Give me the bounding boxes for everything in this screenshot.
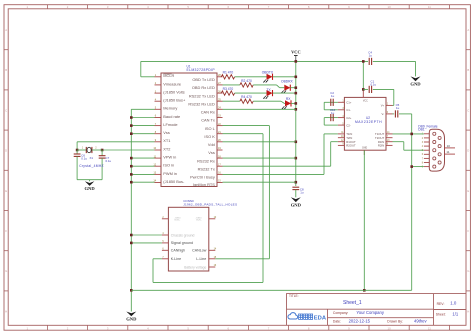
U1 pin 16 (PwrCtrl / Busy) [217,173,223,175]
resistor R3 [221,91,234,95]
svg-text:CANhigh: CANhigh [171,249,185,253]
wire CAN Rx to rail [223,108,296,110]
junction on VCC rail [295,181,298,184]
node crystal left [76,149,79,152]
svg-text:F: F [5,229,7,233]
wire U1 PWM in to left bus [131,173,154,175]
wire crystal ground rail [77,179,102,181]
wire R1IN to DB1 pin 5 [393,141,404,143]
node crystal right [101,149,104,152]
junction C1 node [362,88,365,91]
junction VCC tee [295,60,298,63]
svg-text:L-Line: L-Line [196,257,206,261]
wire C4 to GND corner [373,60,416,62]
LED RX D4 [285,100,291,106]
svg-text:11: 11 [446,150,449,154]
DB1 pin 8 [424,162,429,164]
U1 pin 11 (VPW in) [155,157,162,159]
junction on VCC rail [295,92,298,95]
svg-text:K-Line: K-Line [171,257,181,261]
svg-text:RS232 Rx LED: RS232 Rx LED [188,101,215,106]
CONN0 pin 16 (Battery voltage) [209,266,216,268]
svg-text:Battery voltage: Battery voltage [184,265,206,269]
CONN0 pin 10 (J1850 Bus-) [209,218,216,220]
svg-text:B: B [5,68,7,72]
svg-text:R1 470: R1 470 [223,71,234,75]
junction left bus [130,165,133,168]
svg-text:(J1850 Bus-: (J1850 Bus- [163,179,185,184]
DB1 hole left column [433,132,436,135]
CONN0 pin 14 (CANLow) [209,249,216,251]
svg-text:0.1u: 0.1u [371,82,377,86]
resistor R1 [221,75,234,79]
DB1 hole left column [433,149,436,152]
svg-text:R2OUT: R2OUT [346,144,356,148]
wire J1850 Bus- to left bus [131,181,154,183]
wire RS232 Tx to MAX232 R1OUT [223,165,331,167]
wire to crystal ground [89,180,91,182]
junction on VCC rail [295,157,298,160]
wire left ground bus vertical [130,109,132,311]
svg-text:XT2: XT2 [163,146,170,151]
CONN0 pin 2 (J1850 Bus+) [162,218,169,220]
CONN0 pin 6 (CANhigh) [162,249,169,251]
wire ISO K to K-Line [223,133,264,135]
DB1 pin 11 shield [445,153,456,155]
svg-text:OBDTX: OBDTX [262,70,274,74]
U1 pin 10 (XT2) [155,149,162,151]
svg-text:Vdd: Vdd [208,142,215,147]
svg-text:V+: V+ [381,104,385,108]
svg-text:V-: V- [382,112,385,116]
wire IgnMon RTS to rail [223,181,296,183]
svg-text:0.1u: 0.1u [106,159,112,163]
U2 pin 8 (R2IN) [386,144,393,146]
svg-text:C2+: C2+ [346,116,352,120]
svg-text:TITLE:: TITLE: [289,294,299,298]
EasyEDA logo [288,313,298,319]
svg-text:10: 10 [447,144,451,148]
U2 pin 16 (VCC) [362,91,364,97]
svg-text:C: C [5,108,7,112]
svg-text:MAX232EPTH: MAX232EPTH [355,120,382,124]
wire U2 GND down [363,150,365,290]
U1 pin 26 (RS232 Tx LED) [217,92,223,94]
svg-text:1u: 1u [396,106,400,110]
junction left bus [130,173,133,176]
svg-text:0.1u: 0.1u [81,156,87,160]
svg-text:(J1850 Volts: (J1850 Volts [163,90,184,95]
junction left bus [130,116,133,119]
svg-text:11: 11 [428,5,431,9]
svg-text:ISO L: ISO L [205,126,216,131]
DB1 pin 3 [424,141,429,143]
wire VCC rail vertical [295,61,297,186]
DB1 hole right column [438,136,441,139]
wire Memory to left bus [131,108,154,110]
wire U1 LFmode to left bus [131,125,154,127]
DB1 pin 6 [424,153,429,155]
U1 pin 13 (PWM in) [155,173,162,175]
svg-text:A: A [467,28,469,32]
DB1 pin 5 [424,149,429,151]
DB1 pin 2 [424,137,429,139]
wire C8 to ground [295,190,297,198]
U2 pin 14 (T1OUT) [386,133,393,135]
svg-text:Sheet_1: Sheet_1 [343,300,362,306]
svg-text:X1: X1 [90,156,94,160]
U1 pin 8 (Vss) [155,133,162,135]
wire R4 to D4 [253,100,281,102]
svg-text:VCC: VCC [291,49,301,54]
ground crystal [85,181,95,186]
svg-text:49thev: 49thev [414,318,427,323]
wire RS232 Rx to rail [223,157,296,159]
capacitor C1 [368,86,370,93]
svg-text:LFmode: LFmode [163,122,177,127]
wire Vdd to rail [223,141,296,143]
svg-text:1u: 1u [331,94,335,98]
junction left bus [130,132,133,135]
svg-text:DB1: DB1 [418,128,425,132]
CONN0 pin 4 (Chassis ground) [162,234,169,236]
U1 pin 28 (OBD Tx LED) [217,76,223,78]
U2 pin 1 (C1+) [338,101,345,103]
svg-text:C: C [467,108,469,112]
title block [287,294,467,326]
wire U1 VPW in to left bus [131,157,154,159]
svg-text:REV:: REV: [437,302,445,306]
wire pin27 to R2 [223,84,240,86]
U2 pin 2 (V+) [386,104,393,106]
svg-text:Signal ground: Signal ground [171,241,193,245]
svg-text:G: G [467,269,469,273]
wire C1 to V+ [373,88,394,90]
svg-text:R3 470: R3 470 [223,87,234,91]
U1 pin 17 (RS232 Tx) [217,165,223,167]
wire crystal left [77,149,86,151]
svg-text:RS232 Rx: RS232 Rx [197,158,215,163]
ground top right [411,76,421,81]
U2 pin 4 (C2+) [338,117,345,119]
DB1 pin 10 shield [445,147,456,149]
svg-text:PWM in: PWM in [163,171,177,176]
svg-text:ISO in: ISO in [163,163,174,168]
DB1 hole left column [433,140,436,143]
svg-text:H: H [467,309,469,313]
DB1 pin 4 [424,145,429,147]
capacitor C8 [292,186,299,188]
svg-text:OBDRX: OBDRX [281,79,294,83]
capacitor C4 [368,58,370,65]
wire R3 to D3 [235,92,267,94]
svg-text:RS232 Tx: RS232 Tx [198,166,215,171]
U1 pin 21 (ISO K) [217,133,223,135]
wire top rail VCC [141,60,368,62]
svg-text:1u: 1u [331,111,335,115]
svg-text:Memory: Memory [163,106,177,111]
wire ISO L to L-Line [223,125,270,127]
svg-text:GND: GND [362,148,367,150]
DB1 hole right column [438,153,441,156]
op-amp U1 body [161,73,217,187]
DB1 hole left column [433,157,436,160]
U2 pin 9 (R2OUT) [338,144,345,146]
svg-text:IgnMon RTS: IgnMon RTS [193,182,215,187]
svg-text:Vss: Vss [163,130,170,135]
wire U1 ISO in to left bus [131,165,154,167]
svg-text:VCC: VCC [363,101,368,103]
capacitor C5 [393,113,395,115]
junction left bus [130,124,133,127]
svg-text:C1-: C1- [346,108,351,112]
U2 pin 6 (V-) [386,113,393,115]
svg-text:PwrCtrl / Busy: PwrCtrl / Busy [190,174,215,179]
wire R1 to D1 [235,76,267,78]
CONN0 pin 5 (Signal ground) [162,242,169,244]
U1 pin 22 (ISO L) [217,125,223,127]
U1 pin 7 (LFmode) [155,125,162,127]
svg-text:ELM32728PDIP: ELM32728PDIP [187,68,216,72]
wire left bus to CONN signal ground [131,242,162,244]
U2 pin 5 (C2-) [338,124,345,126]
U1 pin 12 (ISO in) [155,165,162,167]
svg-text:1/1: 1/1 [452,312,458,317]
junction on VCC rail [295,86,298,89]
junction top rail [362,60,365,63]
svg-text:RX: RX [286,97,291,101]
wire PwrCtrl to MAX232 T1IN [223,173,325,175]
junction on VCC rail [295,108,298,111]
svg-text:A: A [5,28,7,32]
U1 pin 23 (CAN Tx) [217,117,223,119]
DB1 hole right column [438,145,441,148]
wire MCLR to top rail [141,76,155,78]
capacitor C2 [330,101,338,103]
wire U1 Baud rate to left bus [131,117,154,119]
wire D1 to VCC rail [273,76,296,78]
resistor R2 [240,83,253,87]
svg-text:E: E [467,189,469,193]
U1 pin 4 ((J1850 Bus+) [155,100,162,102]
svg-text:10: 10 [388,5,392,9]
U1 pin 3 ((J1850 Volts) [155,92,162,94]
U2 pin 7 (T2OUT) [386,137,393,139]
wire crystal right [92,149,102,151]
wire VCC rail to U2 VCC [362,61,364,91]
svg-text:Crystal_4MHZ: Crystal_4MHZ [79,164,104,168]
wire D2 to VCC rail [290,87,296,89]
capacitor C7 [101,150,103,156]
U1 pin 27 (OBD Rx LED) [217,84,223,86]
svg-text:Date:: Date: [333,319,341,323]
svg-text:EDA: EDA [314,316,327,322]
U2 pin 3 (C1-) [338,109,345,111]
U1 pin 6 (Baud rate) [155,117,162,119]
wire R2 to D2 [253,84,276,86]
wire XT1 to crystal [77,141,154,143]
svg-text:RS232 Tx LED: RS232 Tx LED [189,93,215,98]
svg-text:CAN Rx: CAN Rx [201,110,215,115]
svg-text:VPW in: VPW in [163,155,176,160]
U1 pin 25 (RS232 Rx LED) [217,100,223,102]
svg-text:ISO K: ISO K [204,134,215,139]
ground below C8 [291,197,301,202]
U1 pin 14 ((J1850 Bus-) [155,182,162,184]
svg-text:1u: 1u [300,190,304,194]
wire T1OUT to DB1 pin 1 [393,133,424,135]
svg-text:OBD Rx LED: OBD Rx LED [192,85,215,90]
U1 pin 5 (Memory) [155,108,162,110]
U1 pin 19 (Vss) [217,149,223,151]
svg-text:Company:: Company: [333,311,349,315]
DB1 pin 9 [424,166,429,168]
junction DB1 pin 9 net [410,165,413,168]
wire U1 Vss to left bus [131,133,154,135]
junction on VCC rail [295,141,298,144]
junction left bus at ground line [130,289,133,292]
junction left bus [130,157,133,160]
U2 pin 12 (R1OUT) [338,141,345,143]
wire C5 down right side [399,113,412,115]
wire left bus to CONN chassis ground [131,234,162,236]
wire to DB1 pin 9 [412,166,424,168]
junction T1OUT net [410,133,413,136]
wire pin25 to R4 [223,100,240,102]
capacitor C6 [76,150,78,154]
junction on VCC rail [295,76,298,79]
U1 pin 15 (IgnMon RTS) [217,182,223,184]
resistor R4 [240,99,253,103]
LED TX D3 [267,90,273,96]
svg-text:D: D [467,149,469,153]
U2 pin 11 (T1IN) [338,133,345,135]
svg-text:D: D [5,149,7,153]
svg-text:R4 470: R4 470 [241,95,252,99]
U2 pin 10 (T2IN) [338,137,345,139]
LED OBDRX D2 [284,85,290,91]
LED OBDTX D1 [267,74,273,80]
svg-text:GND: GND [410,82,421,87]
svg-text:BUS+: BUS+ [175,220,181,222]
svg-text:1u: 1u [369,53,373,57]
svg-text:C1+: C1+ [346,101,352,105]
svg-text:R2IN: R2IN [378,144,384,148]
svg-text:CAN Tx: CAN Tx [201,118,215,123]
svg-text:GND: GND [126,317,137,322]
svg-text:H: H [5,309,7,313]
junction left bus [130,181,133,184]
svg-text:G: G [5,269,7,273]
svg-text:R2 470: R2 470 [241,79,252,83]
junction ground line U2 [363,289,366,292]
svg-text:OBD Tx LED: OBD Tx LED [192,77,215,82]
ground bottom left [126,312,136,317]
svg-text:Vss: Vss [208,150,215,155]
DB1 hole left column [433,165,436,168]
U1 pin 1 (MCLR) [155,76,162,78]
U1 pin 20 (Vdd) [217,141,223,143]
svg-text:J1962_OBD_PADS_TALL_HOLES: J1962_OBD_PADS_TALL_HOLES [183,202,237,206]
svg-text:CANLow: CANLow [192,249,207,253]
U1 pin 18 (RS232 Rx) [217,157,223,159]
svg-text:Drawn By:: Drawn By: [387,320,403,324]
wire D4 to VCC rail [291,102,296,104]
svg-text:2022-12-15: 2022-12-15 [349,318,371,323]
svg-text:XT1: XT1 [163,138,170,143]
connector CONN0 body [168,207,208,271]
DB1 hole right column [438,161,441,164]
crystal X1 [85,147,87,153]
CONN0 pin 7 (K-Line) [162,258,169,260]
svg-text:1.0: 1.0 [450,301,457,306]
capacitor C10 [330,117,338,119]
svg-text:Baud rate: Baud rate [163,114,180,119]
svg-text:GND: GND [291,203,302,208]
wire bottom ground line [131,289,411,291]
svg-text:C2-: C2- [346,123,351,127]
wire C1 node [363,88,368,90]
svg-text:GND: GND [84,186,95,191]
wire D3 to VCC rail [273,92,296,94]
U1 pin 24 (CAN Rx) [217,108,223,110]
svg-text:Chassis ground: Chassis ground [171,233,195,237]
svg-text:(J1850 Bus+: (J1850 Bus+ [163,98,186,103]
svg-text:Sheet:: Sheet: [436,313,446,317]
U2 pin 15 (GND) [363,150,365,155]
svg-text:E: E [5,189,7,193]
U2 pin 13 (R1IN) [386,141,393,143]
CONN0 pin 15 (L-Line) [209,258,216,260]
connector DB1 body [429,129,444,171]
U1 pin 9 (XT1) [155,141,162,143]
svg-text:F: F [467,229,469,233]
svg-text:11: 11 [428,326,431,330]
DB1 pin 1 [424,133,429,135]
svg-text:Vmeasure: Vmeasure [163,81,181,86]
svg-text:Your Company: Your Company [356,310,384,315]
U1 pin 2 (Vmeasure) [155,84,162,86]
svg-text:BUS-: BUS- [196,220,201,222]
junction on VCC rail [295,102,298,105]
wire XT2 to crystal [102,149,154,151]
op-amp U2 body [344,97,386,150]
svg-text:B: B [467,68,469,72]
DB1 pin 7 [424,157,429,159]
svg-text:10: 10 [388,326,392,330]
